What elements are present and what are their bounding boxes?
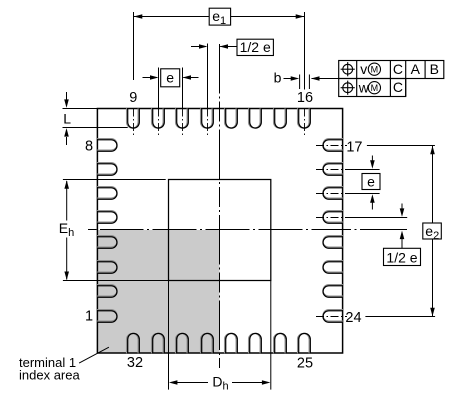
svg-text:16: 16 xyxy=(297,90,313,106)
svg-text:A: A xyxy=(411,61,421,77)
svg-text:M: M xyxy=(371,64,379,74)
dimension L arrows xyxy=(66,92,68,100)
dimension 1/2 e (right) extension line xyxy=(347,217,407,219)
dimension Eh line xyxy=(66,181,68,221)
dimension Dh extension lines xyxy=(168,281,170,390)
terminal 13 xyxy=(225,108,238,128)
terminal 20 xyxy=(323,211,343,224)
horizontal centerline xyxy=(88,229,407,231)
terminal 3 xyxy=(97,261,117,274)
svg-text:17: 17 xyxy=(346,139,362,155)
package body outline xyxy=(97,109,342,354)
terminal 28 xyxy=(225,333,238,353)
dimension e1 line xyxy=(134,16,305,18)
dimension e (right) extension lines xyxy=(347,169,380,171)
terminal 1 index area leader xyxy=(79,347,109,363)
svg-text:L: L xyxy=(63,111,71,127)
dimension L lines xyxy=(63,108,98,110)
terminal 18 xyxy=(323,163,343,176)
svg-text:e: e xyxy=(166,70,174,86)
vertical centerline xyxy=(219,44,221,368)
terminal 1 index area shading xyxy=(97,230,219,353)
terminal 4 xyxy=(97,236,117,249)
terminal 26 xyxy=(274,333,287,353)
svg-text:M: M xyxy=(371,83,379,93)
svg-text:v: v xyxy=(360,61,367,77)
svg-text:24: 24 xyxy=(345,310,361,326)
label 1/2 e (top) xyxy=(237,39,273,55)
position symbol row 1 xyxy=(341,62,355,76)
dimension e2 line xyxy=(432,146,434,316)
terminal 11 xyxy=(176,108,189,128)
dimension 1/2 e (top) extension line xyxy=(207,44,209,109)
terminal 29 xyxy=(201,333,214,353)
dimension Eh extension lines xyxy=(63,179,166,181)
terminal 25 xyxy=(298,333,311,353)
pin 24 extension line xyxy=(365,316,435,318)
terminal 32 xyxy=(127,333,140,353)
terminal 12 xyxy=(201,108,214,128)
terminal 17-20,24 centerlines xyxy=(316,145,347,147)
terminal 27 xyxy=(249,333,262,353)
svg-text:C: C xyxy=(393,79,403,95)
dimension 1/2 e (right) arrows xyxy=(401,204,403,212)
dimension e1 extension lines xyxy=(133,12,135,80)
pin 17 extension line xyxy=(367,145,435,147)
dimension b ticks xyxy=(299,75,301,90)
svg-text:C: C xyxy=(393,61,403,77)
dimension 1/2 e (top) arrows xyxy=(191,46,206,48)
svg-text:1/2 e: 1/2 e xyxy=(386,250,417,266)
label e2 xyxy=(423,223,442,239)
exposed die pad (Dh x Eh) xyxy=(169,180,271,281)
terminal 7 xyxy=(97,163,117,176)
terminal 6 xyxy=(97,187,117,200)
dimension e (top) arrows xyxy=(143,77,158,79)
terminal 19 xyxy=(323,187,343,200)
svg-text:e: e xyxy=(367,173,375,189)
terminal 10 xyxy=(152,108,165,128)
terminal 17 xyxy=(323,139,343,152)
terminal 9 xyxy=(127,108,140,128)
terminal 16 xyxy=(298,108,311,128)
feature control frame row 1 xyxy=(339,61,444,97)
terminal 31 xyxy=(152,333,165,353)
terminal 9-12,16 centerlines xyxy=(133,109,135,137)
terminal 14 xyxy=(249,108,262,128)
dimension e (top) extension lines xyxy=(158,68,160,109)
svg-text:9: 9 xyxy=(129,90,137,106)
dimension Dh line xyxy=(177,382,208,384)
svg-text:1: 1 xyxy=(85,308,93,324)
terminal 22 xyxy=(323,261,343,274)
svg-text:index area: index area xyxy=(19,368,80,383)
label e (right) xyxy=(362,174,380,190)
dimension e (right) arrows xyxy=(371,156,373,164)
terminal 21 xyxy=(323,236,343,249)
terminal 1 xyxy=(97,310,117,323)
svg-text:8: 8 xyxy=(85,139,93,155)
label 1/2 e (right) xyxy=(384,248,421,265)
terminal 15 xyxy=(274,108,287,128)
terminal 23 xyxy=(323,285,343,298)
position symbol row 2 xyxy=(341,81,355,95)
svg-text:B: B xyxy=(430,61,439,77)
terminal 30 xyxy=(176,333,189,353)
label e (top) xyxy=(161,69,180,87)
svg-text:32: 32 xyxy=(127,355,143,371)
svg-text:25: 25 xyxy=(297,355,313,371)
svg-text:b: b xyxy=(274,69,282,85)
terminal 5 xyxy=(97,211,117,224)
terminal 8 xyxy=(97,139,117,152)
svg-text:1/2 e: 1/2 e xyxy=(240,39,271,55)
terminal 24 xyxy=(323,310,343,323)
terminal 2 xyxy=(97,285,117,298)
label e1 xyxy=(209,8,230,25)
dimension b arrows xyxy=(284,78,292,80)
